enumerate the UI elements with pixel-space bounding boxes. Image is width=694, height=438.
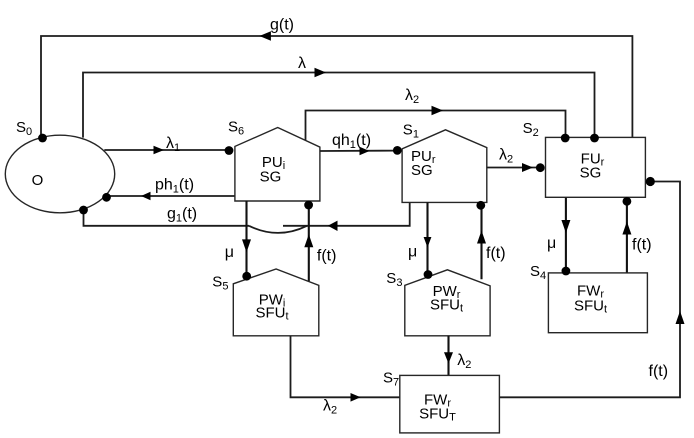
wire lambda1 O to S6 bbox=[104, 146, 229, 155]
block S3: PWr SFUt pentagon bbox=[405, 270, 490, 336]
svg-text:f(t): f(t) bbox=[632, 237, 652, 254]
svg-text:f(t): f(t) bbox=[649, 363, 669, 380]
svg-text:SFUt: SFUt bbox=[255, 305, 288, 323]
node dot FUr top lambda bbox=[590, 134, 599, 143]
block S7: FWr SFUT rect bbox=[400, 375, 500, 433]
block S1: PUr SG pentagon bbox=[402, 130, 487, 203]
wire mu FUr to S4 bbox=[561, 198, 570, 271]
svg-text:μ: μ bbox=[408, 244, 417, 261]
node dot FUr bottom bbox=[623, 197, 632, 206]
node dot FUr top lambda2 bbox=[561, 134, 570, 143]
node S5 dot bbox=[242, 272, 251, 281]
node S3 dot bbox=[424, 270, 433, 279]
wire ph1(t) PUi to O bbox=[107, 192, 235, 201]
svg-text:g1(t): g1(t) bbox=[167, 206, 197, 225]
block S4: FWr SFUt rect bbox=[548, 273, 647, 333]
wire qh1(t) PUi to S1 bbox=[320, 147, 397, 155]
wire lambda2 PUr to FUr bbox=[487, 163, 541, 172]
wire lambda2 S3 to S7 bbox=[444, 336, 453, 376]
node dot on O right (ph1) bbox=[102, 193, 111, 202]
svg-text:f(t): f(t) bbox=[486, 245, 506, 262]
wire lambda top bbox=[83, 68, 595, 138]
svg-text:SFUt: SFUt bbox=[430, 296, 463, 314]
node S1 dot bbox=[393, 146, 402, 155]
block S6: PUi SG pentagon bbox=[235, 128, 320, 202]
node S4 dot bbox=[562, 267, 571, 276]
block S5: PWi SFUt pentagon bbox=[233, 269, 318, 336]
svg-text:μ: μ bbox=[225, 244, 234, 261]
svg-text:g(t): g(t) bbox=[270, 17, 294, 34]
node dot FUr right bbox=[646, 177, 655, 186]
state O (ellipse) bbox=[5, 135, 114, 213]
wire f(t) S3 to PUr bbox=[477, 206, 486, 280]
svg-text:f(t): f(t) bbox=[317, 248, 337, 265]
wire g(t) feedback top bbox=[41, 31, 632, 137]
svg-text:λ: λ bbox=[298, 55, 306, 72]
svg-text:SG: SG bbox=[260, 168, 282, 185]
svg-text:SG: SG bbox=[411, 162, 433, 179]
node dot PUr bottom bbox=[476, 201, 485, 210]
wire mu PUr to S3 bbox=[424, 202, 432, 274]
svg-text:SFUt: SFUt bbox=[574, 297, 607, 315]
svg-text:SG: SG bbox=[580, 165, 602, 182]
node S2 dot (lambda2 in) bbox=[536, 163, 545, 172]
svg-text:μ: μ bbox=[547, 235, 556, 252]
wire f(t) S7 to FUr right bbox=[499, 182, 684, 398]
wire lambda2 top bbox=[306, 106, 566, 141]
block S2: FUr SG rect bbox=[546, 137, 646, 197]
node dot on O bottom (g1) bbox=[79, 206, 88, 215]
svg-text:O: O bbox=[32, 172, 44, 189]
wire lambda2 S5 to S7 bbox=[291, 336, 400, 402]
node S0 dot bbox=[38, 134, 47, 143]
node S6 dot bbox=[225, 146, 234, 155]
wire mu PUi to S5 bbox=[242, 201, 251, 276]
wire f(t) S4 to FUr bbox=[622, 202, 631, 273]
wire f(t) S5 to PUi bbox=[304, 204, 313, 281]
node dot PUi bottom bbox=[304, 201, 313, 210]
wire g1(t) PUr to O with hop arc bbox=[84, 202, 410, 233]
